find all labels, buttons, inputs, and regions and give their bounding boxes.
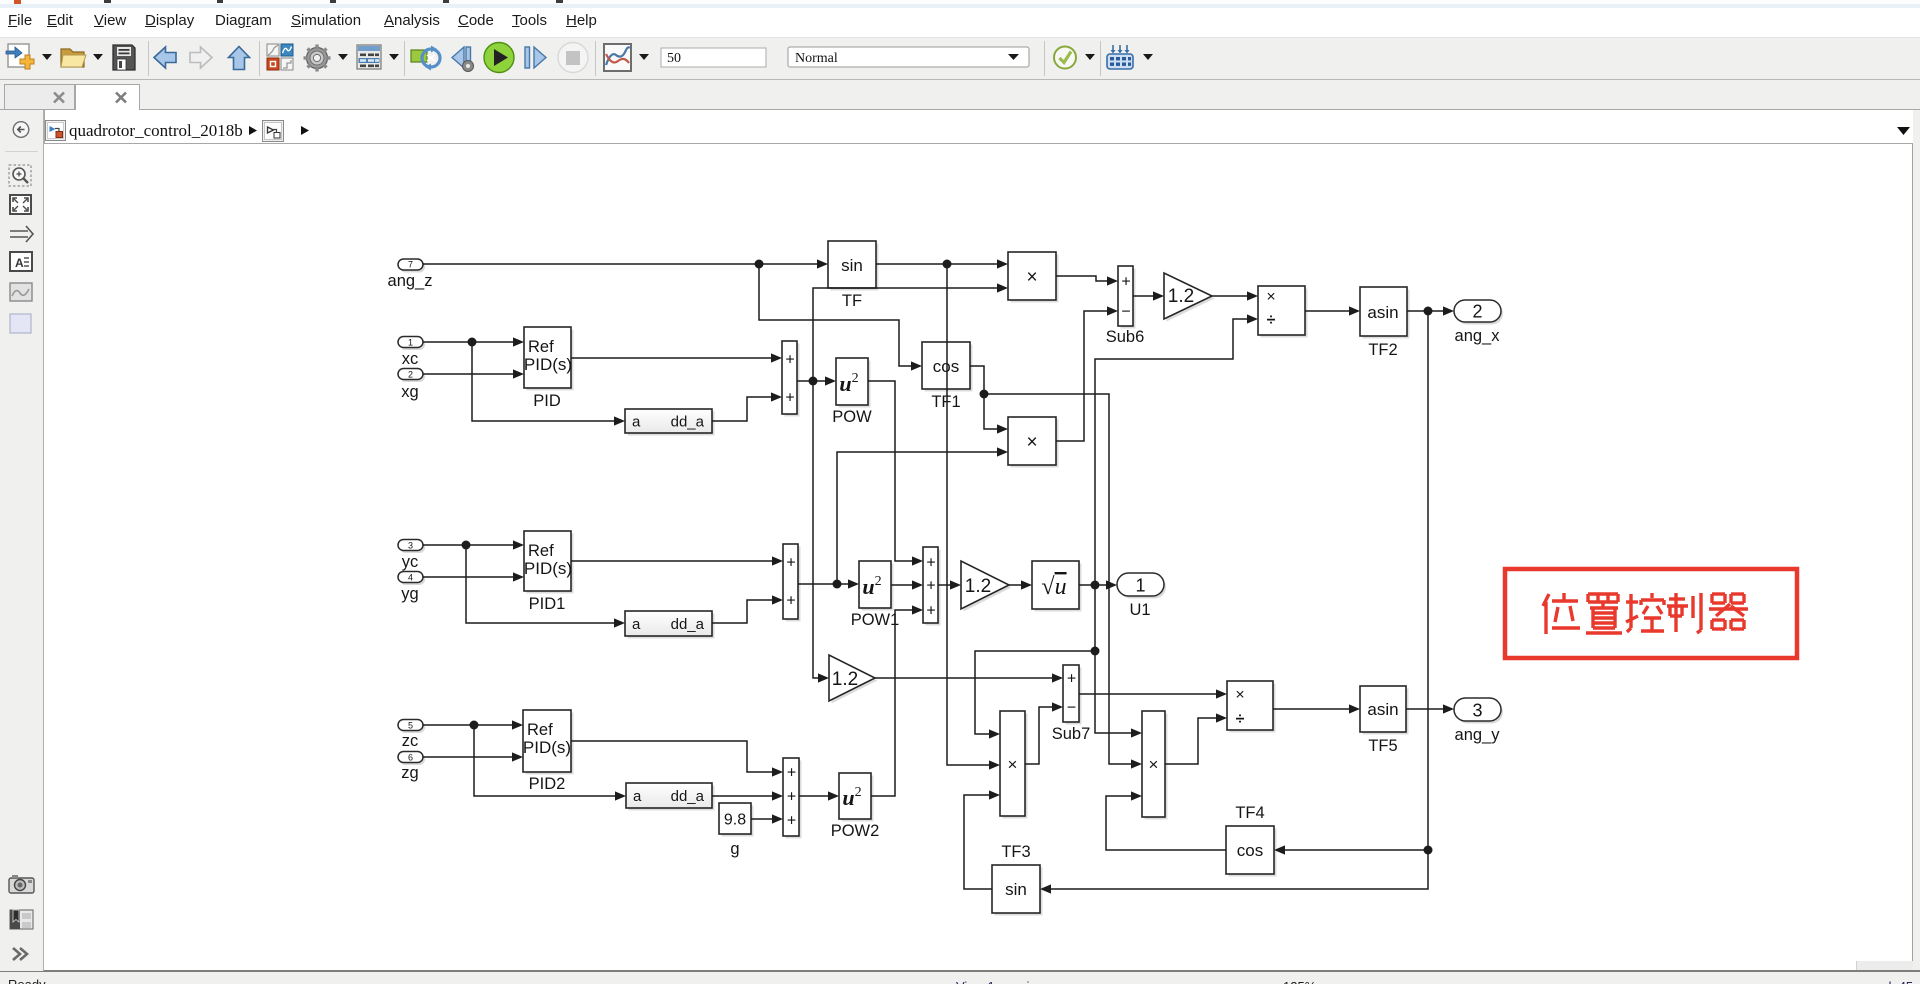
svg-text:Sub6: Sub6 <box>1106 328 1145 346</box>
wire ang_z to sin TF <box>423 259 828 268</box>
input port 5 zc <box>398 720 425 734</box>
annotation red box (position controller) <box>1505 569 1797 658</box>
wire Product to Sub6 plus <box>1056 276 1118 286</box>
input port 3 yc <box>398 540 425 554</box>
label zc <box>402 732 419 750</box>
svg-text:TF5: TF5 <box>1368 737 1397 755</box>
status bar <box>0 972 1920 984</box>
input port 6 zg <box>398 752 425 766</box>
svg-text:+: + <box>787 789 796 806</box>
svg-text:POW2: POW2 <box>831 822 880 840</box>
label PID1 <box>529 595 566 613</box>
wire zc branch to dd_a3 <box>474 725 626 801</box>
svg-text:xg: xg <box>401 383 418 401</box>
wire U1 branch down to Product3 <box>1095 585 1142 738</box>
product block Product3 (tall, right) <box>1142 711 1168 820</box>
wire cos TF4 to Product3 <box>1106 791 1226 850</box>
wire POW to Add2 <box>868 381 923 566</box>
wire PID to Add <box>571 353 782 362</box>
svg-text:×: × <box>1026 432 1037 453</box>
PID controller PID1 <box>524 531 574 594</box>
subsystem dd_a1 <box>625 409 715 436</box>
wire POW1 to Add2 <box>891 580 923 589</box>
svg-text:cos: cos <box>933 357 959 376</box>
divide block Divide (ang_x) <box>1258 286 1308 338</box>
wire ang_z branch to cos TF1 <box>759 264 922 371</box>
svg-text:Sub7: Sub7 <box>1052 725 1091 743</box>
label TF4 <box>1235 804 1264 822</box>
wire sin TF to Product <box>876 259 1008 268</box>
menu bar <box>0 8 1920 37</box>
svg-text:PID2: PID2 <box>529 775 566 793</box>
label U1 <box>1129 601 1150 619</box>
svg-text:TF: TF <box>842 292 862 310</box>
wire Add3 to POW2 <box>799 791 839 800</box>
svg-text:TF1: TF1 <box>931 393 960 411</box>
wire Product2 to Sub7 minus <box>1025 702 1063 764</box>
math block POW u^2 <box>836 358 871 408</box>
breadcrumb bar <box>44 110 1913 143</box>
svg-text:asin: asin <box>1367 303 1398 322</box>
wire PID2 to Add3 <box>571 741 783 777</box>
svg-text:7: 7 <box>408 260 413 270</box>
svg-text:dd_a: dd_a <box>671 414 705 431</box>
svg-text:POW: POW <box>832 408 872 426</box>
svg-text:a: a <box>632 414 641 431</box>
svg-text:1.2: 1.2 <box>832 669 858 690</box>
wire yg to PID1 <box>423 572 524 581</box>
sum block Add (x row) <box>782 341 800 417</box>
svg-text:3: 3 <box>1472 701 1482 721</box>
svg-text:+: + <box>787 813 796 830</box>
svg-text:+: + <box>787 765 796 782</box>
trig block TF3 sin (mirrored) <box>992 865 1043 916</box>
svg-text:+: + <box>786 593 795 610</box>
svg-text:yg: yg <box>401 585 418 603</box>
svg-text:PID1: PID1 <box>529 595 566 613</box>
wire gain to Divide <box>1212 291 1258 300</box>
wire asin TF5 to port ang_y <box>1406 704 1454 713</box>
title bar remnant strip <box>0 0 1920 4</box>
left sidebar <box>0 110 44 971</box>
svg-text:1: 1 <box>1135 576 1145 596</box>
svg-text:Ref: Ref <box>528 542 554 560</box>
svg-text:POW1: POW1 <box>851 611 900 629</box>
wire xc to PID <box>423 337 524 346</box>
output port 2 ang_x <box>1454 300 1503 325</box>
svg-text:+: + <box>785 390 794 407</box>
wire sqrt to port U1 <box>1079 580 1117 655</box>
wire sin TF branch down to Product2 <box>947 264 1000 770</box>
constant 9.8 <box>719 803 754 837</box>
svg-text:+: + <box>786 555 795 572</box>
output port 3 ang_y <box>1454 698 1503 724</box>
wire dd_a1 to Add <box>712 392 782 421</box>
svg-text:PID: PID <box>533 392 561 410</box>
sum block Add1 (y row) <box>783 544 801 622</box>
toolbar <box>0 37 1920 80</box>
input port 2 xg <box>398 369 425 383</box>
svg-text:3: 3 <box>408 541 413 551</box>
sum block Add3 (z row) <box>783 758 802 839</box>
input port 7 ang_z <box>398 259 425 273</box>
svg-text:×: × <box>1266 289 1275 306</box>
wire yc branch to dd_a2 <box>466 545 625 628</box>
svg-text:−: − <box>1067 700 1076 717</box>
svg-text:√u: √u <box>1041 574 1066 600</box>
svg-text:5: 5 <box>408 721 413 731</box>
wire Divide to asin TF2 <box>1305 306 1360 315</box>
svg-text:2: 2 <box>1472 302 1482 322</box>
wire cos TF1 to Product1 <box>970 366 1008 434</box>
trig block TF2 asin <box>1360 287 1410 339</box>
wire Add to POW <box>797 376 836 385</box>
svg-text:+: + <box>926 555 935 572</box>
trig block TF5 asin <box>1360 686 1409 735</box>
svg-text:+: + <box>1121 274 1130 291</box>
label ang_y <box>1455 726 1501 744</box>
input port 1 xc <box>398 337 425 351</box>
label POW <box>832 408 872 426</box>
svg-text:PID(s): PID(s) <box>523 738 571 757</box>
PID controller PID <box>524 327 574 391</box>
divide block Divide1 (ang_y) <box>1227 681 1276 733</box>
svg-text:4: 4 <box>408 573 413 583</box>
label g <box>730 840 739 858</box>
svg-text:9.8: 9.8 <box>724 812 746 829</box>
trig block TF sin <box>828 241 879 291</box>
annotation text 位置控制器 <box>1543 593 1748 634</box>
wire yc to PID1 <box>423 540 524 549</box>
svg-text:−: − <box>1121 304 1130 321</box>
label xg <box>401 383 418 401</box>
wire Product1 to Sub6 minus <box>1056 306 1118 441</box>
math block POW2 u^2 <box>839 773 874 822</box>
subsystem dd_a3 <box>626 783 715 811</box>
product block Product2 (tall, left) <box>1000 711 1028 819</box>
output port 1 U1 <box>1117 573 1166 599</box>
sum block Add2 (3 inputs) <box>923 547 941 626</box>
svg-text:zg: zg <box>401 764 418 782</box>
tab row <box>0 80 1920 110</box>
svg-text:TF3: TF3 <box>1001 843 1030 861</box>
wire asin TF2 to port ang_x <box>1407 306 1454 315</box>
svg-text:cos: cos <box>1237 841 1263 860</box>
wire POW2 up to Add2 <box>871 605 923 796</box>
svg-text:1.2: 1.2 <box>1168 286 1194 307</box>
wire Add2 to Gain1 <box>938 580 961 589</box>
svg-text:TF2: TF2 <box>1368 341 1397 359</box>
svg-text:sin: sin <box>841 256 863 275</box>
svg-text:÷: ÷ <box>1267 312 1276 329</box>
svg-text:g: g <box>730 840 739 858</box>
math block POW1 u^2 <box>859 561 894 611</box>
svg-text:×: × <box>1008 755 1018 774</box>
svg-text:yc: yc <box>402 553 419 571</box>
wire ddx branch up to Product <box>813 283 1008 381</box>
label yg <box>401 585 418 603</box>
gain 1.2 (Gain after Sub6) <box>1164 273 1215 322</box>
svg-text:a: a <box>633 788 642 805</box>
svg-text:×: × <box>1235 687 1244 704</box>
wire cos TF1 branch to Product3 <box>984 394 1142 769</box>
svg-text:ang_x: ang_x <box>1455 327 1501 345</box>
wire Add1 to POW1 <box>798 579 859 588</box>
svg-text:U1: U1 <box>1129 601 1150 619</box>
label Sub6 <box>1106 328 1145 346</box>
wire xg to PID <box>423 369 524 378</box>
wire Sub7 to Divide1 <box>1079 689 1227 698</box>
label xc <box>402 350 419 368</box>
svg-text:2: 2 <box>408 370 413 380</box>
svg-text:+: + <box>1067 671 1076 688</box>
wire xc branch to dd_a1 <box>472 342 625 426</box>
svg-text:Ref: Ref <box>528 338 554 356</box>
wire Product3 to Divide1 divisor <box>1165 713 1227 764</box>
wire ang_x feedback to cos TF4 <box>1274 845 1428 854</box>
svg-text:dd_a: dd_a <box>671 616 705 633</box>
svg-text:×: × <box>1026 267 1037 288</box>
svg-text:asin: asin <box>1367 700 1398 719</box>
label TF <box>842 292 862 310</box>
subtract block Sub7 <box>1063 665 1082 725</box>
gain 1.2 (Gain1 after Add2) <box>961 561 1012 612</box>
svg-text:xc: xc <box>402 350 419 368</box>
wire sin TF3 to Product2 <box>964 790 1000 889</box>
wire U1 branch left to Product2 <box>975 651 1095 739</box>
svg-text:Ref: Ref <box>527 721 553 739</box>
label ang_x <box>1455 327 1501 345</box>
label Sub7 <box>1052 725 1091 743</box>
product block Product (sin*x) <box>1008 252 1059 303</box>
svg-text:zc: zc <box>402 732 419 750</box>
PID controller PID2 <box>523 710 574 775</box>
trig block TF4 cos (mirrored) <box>1226 826 1277 877</box>
label yc <box>402 553 419 571</box>
wire ang_x feedback down to sin TF3 <box>1040 311 1433 894</box>
label TF2 <box>1368 341 1397 359</box>
wire dd_a2 to Add1 <box>712 595 783 623</box>
wire Divide1 to asin TF5 <box>1273 704 1360 713</box>
svg-text:÷: ÷ <box>1236 711 1245 728</box>
subsystem dd_a2 <box>625 611 715 639</box>
svg-text:1: 1 <box>408 338 413 348</box>
product block Product1 (cos*x) <box>1008 417 1059 468</box>
wire ddy branch up to Product1 <box>837 447 1008 584</box>
svg-text:ang_z: ang_z <box>388 272 433 290</box>
label ang_z <box>388 272 433 290</box>
trig block TF1 cos <box>922 342 973 392</box>
wire Gain2 to Sub7 plus <box>875 673 1063 682</box>
label PID2 <box>529 775 566 793</box>
wire U1 branch up to Divide divisor <box>1095 314 1258 585</box>
svg-text:ang_y: ang_y <box>1455 726 1501 744</box>
svg-text:sin: sin <box>1005 880 1027 899</box>
wire PID1 to Add1 <box>571 556 783 565</box>
svg-text:6: 6 <box>408 753 413 763</box>
svg-text:a: a <box>632 616 641 633</box>
wire Gain1 to sqrt <box>1009 580 1032 589</box>
wire Sub6 to gain <box>1133 291 1164 300</box>
label POW1 <box>851 611 900 629</box>
svg-text:1.2: 1.2 <box>965 576 991 597</box>
svg-text:+: + <box>926 603 935 620</box>
svg-text:+: + <box>926 578 935 595</box>
label TF3 <box>1001 843 1030 861</box>
sqrt block <box>1032 561 1082 612</box>
wire ddx branch down to Gain2 <box>813 381 829 683</box>
svg-text:dd_a: dd_a <box>671 788 705 805</box>
label POW2 <box>831 822 880 840</box>
wire zc to PID2 <box>423 720 523 729</box>
svg-text:+: + <box>785 352 794 369</box>
label zg <box>401 764 418 782</box>
subtract block Sub6 <box>1118 266 1136 329</box>
label PID <box>533 392 561 410</box>
svg-text:PID(s): PID(s) <box>524 559 572 578</box>
svg-text:PID(s): PID(s) <box>524 355 572 374</box>
wire const 9.8 to Add3 <box>751 814 783 823</box>
gain 1.2 (Gain2 lower) <box>829 655 878 704</box>
label TF1 <box>931 393 960 411</box>
svg-text:×: × <box>1149 755 1159 774</box>
wire dd_a3 to Add3 <box>712 791 783 800</box>
svg-text:TF4: TF4 <box>1235 804 1264 822</box>
wire zg to PID2 <box>423 752 523 761</box>
input port 4 yg <box>398 572 425 586</box>
label TF5 <box>1368 737 1397 755</box>
